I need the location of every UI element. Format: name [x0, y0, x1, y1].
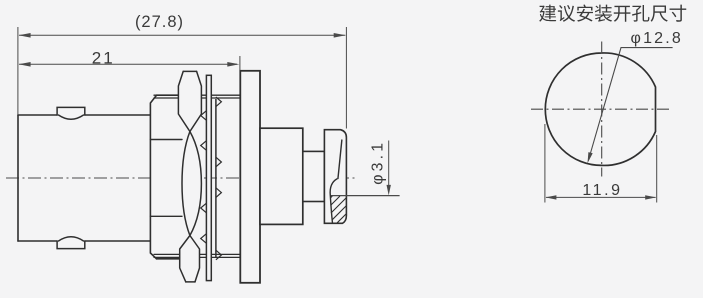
rear body — [260, 128, 303, 224]
flange — [240, 71, 260, 283]
dim 11.9 — [544, 124, 546, 203]
neck — [303, 151, 325, 201]
svg-text:φ3.1: φ3.1 — [369, 140, 386, 185]
hole edge / extension line — [331, 195, 400, 197]
star lock washer (knurled profile, three lenses) — [178, 71, 201, 282]
flat washer — [206, 75, 211, 280]
bayonet lug top — [57, 107, 85, 119]
centerline main axis — [6, 177, 357, 179]
hole circle with flat — [545, 53, 655, 166]
threaded shaft lines — [154, 95, 240, 257]
barrel — [18, 115, 151, 241]
bayonet lug bottom — [57, 237, 85, 249]
socket cavity arc — [330, 179, 337, 224]
svg-text:(27.8): (27.8) — [135, 13, 184, 31]
dim phi3.1 — [388, 141, 390, 191]
dim 21 — [19, 63, 237, 65]
end nut facet edge — [338, 140, 342, 180]
extension lines top dims — [17, 27, 19, 115]
toothed washer edge line — [215, 99, 217, 258]
circle centerlines — [531, 108, 672, 110]
section hatch — [331, 196, 347, 223]
hex nut — [150, 95, 182, 259]
left teeth — [201, 111, 207, 244]
svg-text:φ12.8: φ12.8 — [631, 30, 684, 47]
end nut — [324, 130, 346, 224]
svg-text:11.9: 11.9 — [582, 182, 622, 199]
leader phi12.8 — [588, 48, 672, 161]
svg-text:21: 21 — [92, 48, 115, 67]
cjk title — [539, 5, 686, 22]
dim 27.8 — [19, 34, 345, 36]
